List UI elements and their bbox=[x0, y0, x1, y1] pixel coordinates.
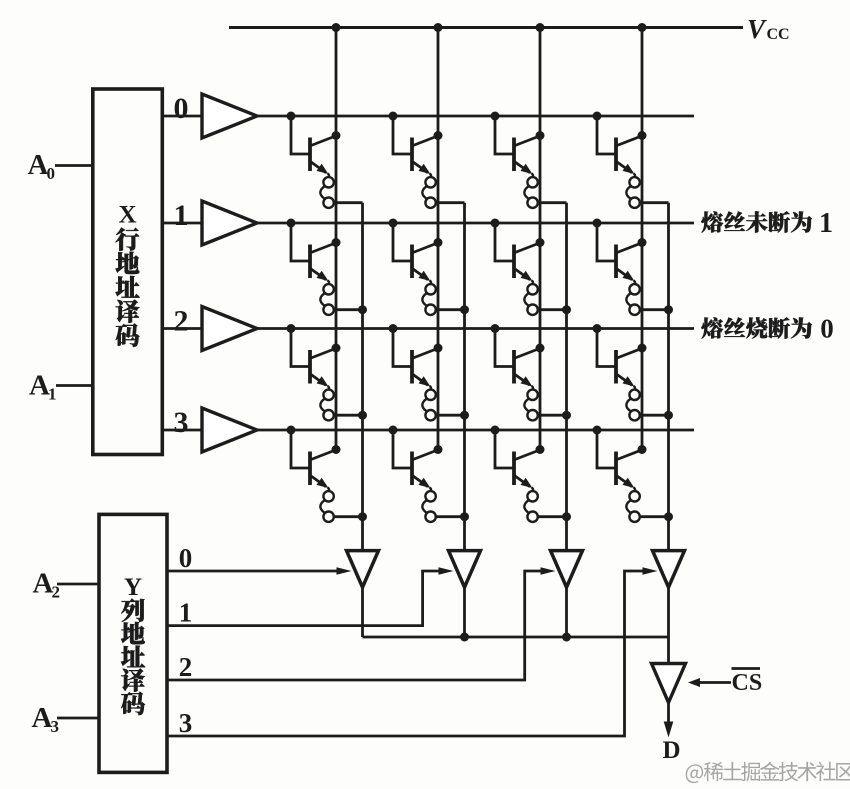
svg-text:1: 1 bbox=[174, 199, 189, 232]
label: fuse intact = 1 bbox=[701, 208, 833, 239]
svg-text:2: 2 bbox=[174, 305, 189, 338]
X row address decoder box bbox=[93, 89, 163, 455]
transistor Q23 (row 2, col 3) bbox=[593, 324, 647, 387]
row driver buffer G4 bbox=[202, 408, 257, 452]
fuse F23 bbox=[626, 386, 639, 421]
transistor Q13 (row 1, col 3) bbox=[593, 219, 647, 282]
label: X decoder output 0 bbox=[174, 92, 189, 125]
transistor Q22 (row 2, col 2) bbox=[491, 324, 545, 387]
wire: A3 to Y decoder bbox=[57, 717, 99, 720]
fuse F10 bbox=[320, 280, 333, 315]
watermark bbox=[686, 762, 850, 783]
svg-text:0: 0 bbox=[47, 164, 56, 183]
transistor Q33 (row 3, col 3) bbox=[593, 426, 647, 489]
svg-text:A: A bbox=[32, 702, 53, 734]
fuse F03 bbox=[626, 173, 639, 208]
transistor Q01 (row 0, col 1) bbox=[389, 112, 443, 175]
svg-text:X: X bbox=[118, 202, 136, 229]
fuse F30 bbox=[320, 487, 333, 522]
wire: column buffer 1 output bbox=[463, 587, 466, 637]
svg-text:1: 1 bbox=[179, 598, 193, 628]
wire: fuse Q10 output jog to bit line 0 bbox=[334, 305, 367, 314]
label A2 bbox=[33, 568, 61, 602]
transistor Q11 (row 1, col 1) bbox=[389, 219, 443, 282]
Y column address decoder box bbox=[99, 514, 167, 772]
svg-text:3: 3 bbox=[51, 717, 60, 736]
label: X decoder output 1 bbox=[174, 199, 189, 232]
svg-text:1: 1 bbox=[819, 208, 833, 239]
wire: collector column 1 from VCC bbox=[434, 23, 443, 450]
fuse F02 bbox=[524, 173, 537, 208]
wire: fuse Q33 output jog to bit line 3 bbox=[640, 512, 673, 521]
svg-text:Y: Y bbox=[124, 574, 142, 601]
wire: fuse Q00 output jog to bit line 0 bbox=[334, 201, 363, 204]
column gate buffer G8 bbox=[653, 551, 685, 588]
transistor Q21 (row 2, col 1) bbox=[389, 324, 443, 387]
label: Y 列地址译码 bbox=[121, 574, 145, 715]
wire: Y select line 3 bbox=[167, 567, 658, 736]
label: Y decoder output 3 bbox=[179, 708, 193, 738]
transistor Q20 (row 2, col 0) bbox=[287, 324, 341, 387]
row driver buffer G3 bbox=[202, 307, 257, 351]
wire: A2 to Y decoder bbox=[57, 583, 99, 586]
row driver buffer G2 bbox=[202, 201, 257, 245]
fuse F13 bbox=[626, 280, 639, 315]
label: X decoder output 3 bbox=[174, 406, 189, 439]
wire: word line row 2 bbox=[256, 327, 694, 330]
wire: fuse Q02 output jog to bit line 2 bbox=[538, 201, 567, 204]
fuse F20 bbox=[320, 386, 333, 421]
svg-text:D: D bbox=[662, 737, 680, 764]
wire: fuse Q13 output jog to bit line 3 bbox=[640, 305, 673, 314]
svg-text:1: 1 bbox=[48, 385, 57, 404]
wire: fuse Q31 output jog to bit line 1 bbox=[436, 512, 469, 521]
fuse F33 bbox=[626, 487, 639, 522]
label: fuse blown = 0 bbox=[701, 314, 833, 344]
transistor Q00 (row 0, col 0) bbox=[287, 112, 341, 175]
wire: output D with arrow bbox=[664, 703, 674, 738]
wire: Y select line 1 bbox=[167, 567, 454, 625]
fuse F21 bbox=[422, 386, 435, 421]
label: X 行地址译码 bbox=[116, 202, 140, 347]
wire: word line row 3 bbox=[256, 429, 694, 432]
label A1 bbox=[29, 370, 57, 404]
wire: collector column 3 from VCC bbox=[638, 23, 647, 450]
svg-text:3: 3 bbox=[179, 708, 193, 738]
fuse F32 bbox=[524, 487, 537, 522]
wire: Y select line 0 bbox=[167, 567, 352, 575]
transistor Q10 (row 1, col 0) bbox=[287, 219, 341, 282]
column gate buffer G5 bbox=[347, 551, 379, 588]
wire: X decoder output 0 stub bbox=[162, 115, 203, 118]
transistor Q32 (row 3, col 2) bbox=[491, 426, 545, 489]
transistor Q12 (row 1, col 2) bbox=[491, 219, 545, 282]
wire: bit line 0 bbox=[361, 203, 364, 551]
label: CS (active low) bbox=[732, 669, 763, 697]
wire: fuse Q03 output jog to bit line 3 bbox=[640, 201, 669, 204]
wire: fuse Q32 output jog to bit line 2 bbox=[538, 512, 571, 521]
label A3 bbox=[32, 702, 60, 736]
svg-text:0: 0 bbox=[820, 314, 834, 344]
wire: word line row 0 bbox=[256, 115, 694, 118]
fuse F11 bbox=[422, 280, 435, 315]
wire: fuse Q12 output jog to bit line 2 bbox=[538, 305, 571, 314]
wire: fuse Q30 output jog to bit line 0 bbox=[334, 512, 367, 521]
fuse F22 bbox=[524, 386, 537, 421]
svg-text:0: 0 bbox=[179, 543, 193, 573]
transistor Q31 (row 3, col 1) bbox=[389, 426, 443, 489]
wire: fuse Q23 output jog to bit line 3 bbox=[640, 411, 673, 420]
fuse F12 bbox=[524, 280, 537, 315]
wire: collector column 0 from VCC bbox=[332, 23, 341, 450]
wire: output bus bbox=[363, 633, 669, 642]
label D bbox=[662, 737, 680, 764]
output enable buffer G9 bbox=[652, 664, 686, 703]
wire: column buffer 3 output bbox=[667, 587, 670, 664]
wire: X decoder output 2 stub bbox=[162, 327, 203, 330]
wire: A0 to X decoder bbox=[55, 164, 93, 167]
svg-text:V: V bbox=[747, 14, 767, 44]
svg-text:A: A bbox=[33, 568, 54, 600]
label: Y decoder output 1 bbox=[179, 598, 193, 628]
wire: bit line 3 bbox=[667, 203, 670, 551]
wire: word line row 1 bbox=[256, 222, 694, 225]
power rail VCC bbox=[229, 26, 743, 29]
column gate buffer G7 bbox=[551, 551, 583, 588]
wire: fuse Q20 output jog to bit line 0 bbox=[334, 411, 367, 420]
column gate buffer G6 bbox=[449, 551, 481, 588]
wire: fuse Q21 output jog to bit line 1 bbox=[436, 411, 469, 420]
label VCC bbox=[747, 14, 790, 44]
fuse F31 bbox=[422, 487, 435, 522]
svg-text:3: 3 bbox=[174, 406, 189, 439]
label: Y decoder output 0 bbox=[179, 543, 193, 573]
wire: bit line 2 bbox=[565, 203, 568, 551]
svg-text:A: A bbox=[29, 370, 50, 402]
wire: column buffer 0 output bbox=[361, 587, 364, 637]
svg-text:CC: CC bbox=[767, 26, 790, 43]
svg-text:2: 2 bbox=[179, 652, 193, 682]
wire: X decoder output 3 stub bbox=[162, 429, 203, 432]
wire: Y select line 2 bbox=[167, 567, 556, 680]
wire: X decoder output 1 stub bbox=[162, 222, 203, 225]
wire: CS input with arrow bbox=[688, 678, 731, 687]
label: X decoder output 2 bbox=[174, 305, 189, 338]
svg-text:A: A bbox=[28, 149, 49, 181]
svg-text:0: 0 bbox=[174, 92, 189, 125]
fuse F01 bbox=[422, 173, 435, 208]
wire: column buffer 2 output bbox=[565, 587, 568, 637]
svg-text:CS: CS bbox=[732, 670, 763, 696]
transistor Q03 (row 0, col 3) bbox=[593, 112, 647, 175]
wire: fuse Q22 output jog to bit line 2 bbox=[538, 411, 571, 420]
wire: fuse Q11 output jog to bit line 1 bbox=[436, 305, 469, 314]
wire: collector column 2 from VCC bbox=[536, 23, 545, 450]
wire: bit line 1 bbox=[463, 203, 466, 551]
wire: A1 to X decoder bbox=[56, 384, 93, 387]
wire: fuse Q01 output jog to bit line 1 bbox=[436, 201, 465, 204]
transistor Q02 (row 0, col 2) bbox=[491, 112, 545, 175]
fuse F00 bbox=[320, 173, 333, 208]
label A0 bbox=[28, 149, 56, 183]
transistor Q30 (row 3, col 0) bbox=[287, 426, 341, 489]
row driver buffer G1 bbox=[202, 94, 257, 138]
label: Y decoder output 2 bbox=[179, 652, 193, 682]
